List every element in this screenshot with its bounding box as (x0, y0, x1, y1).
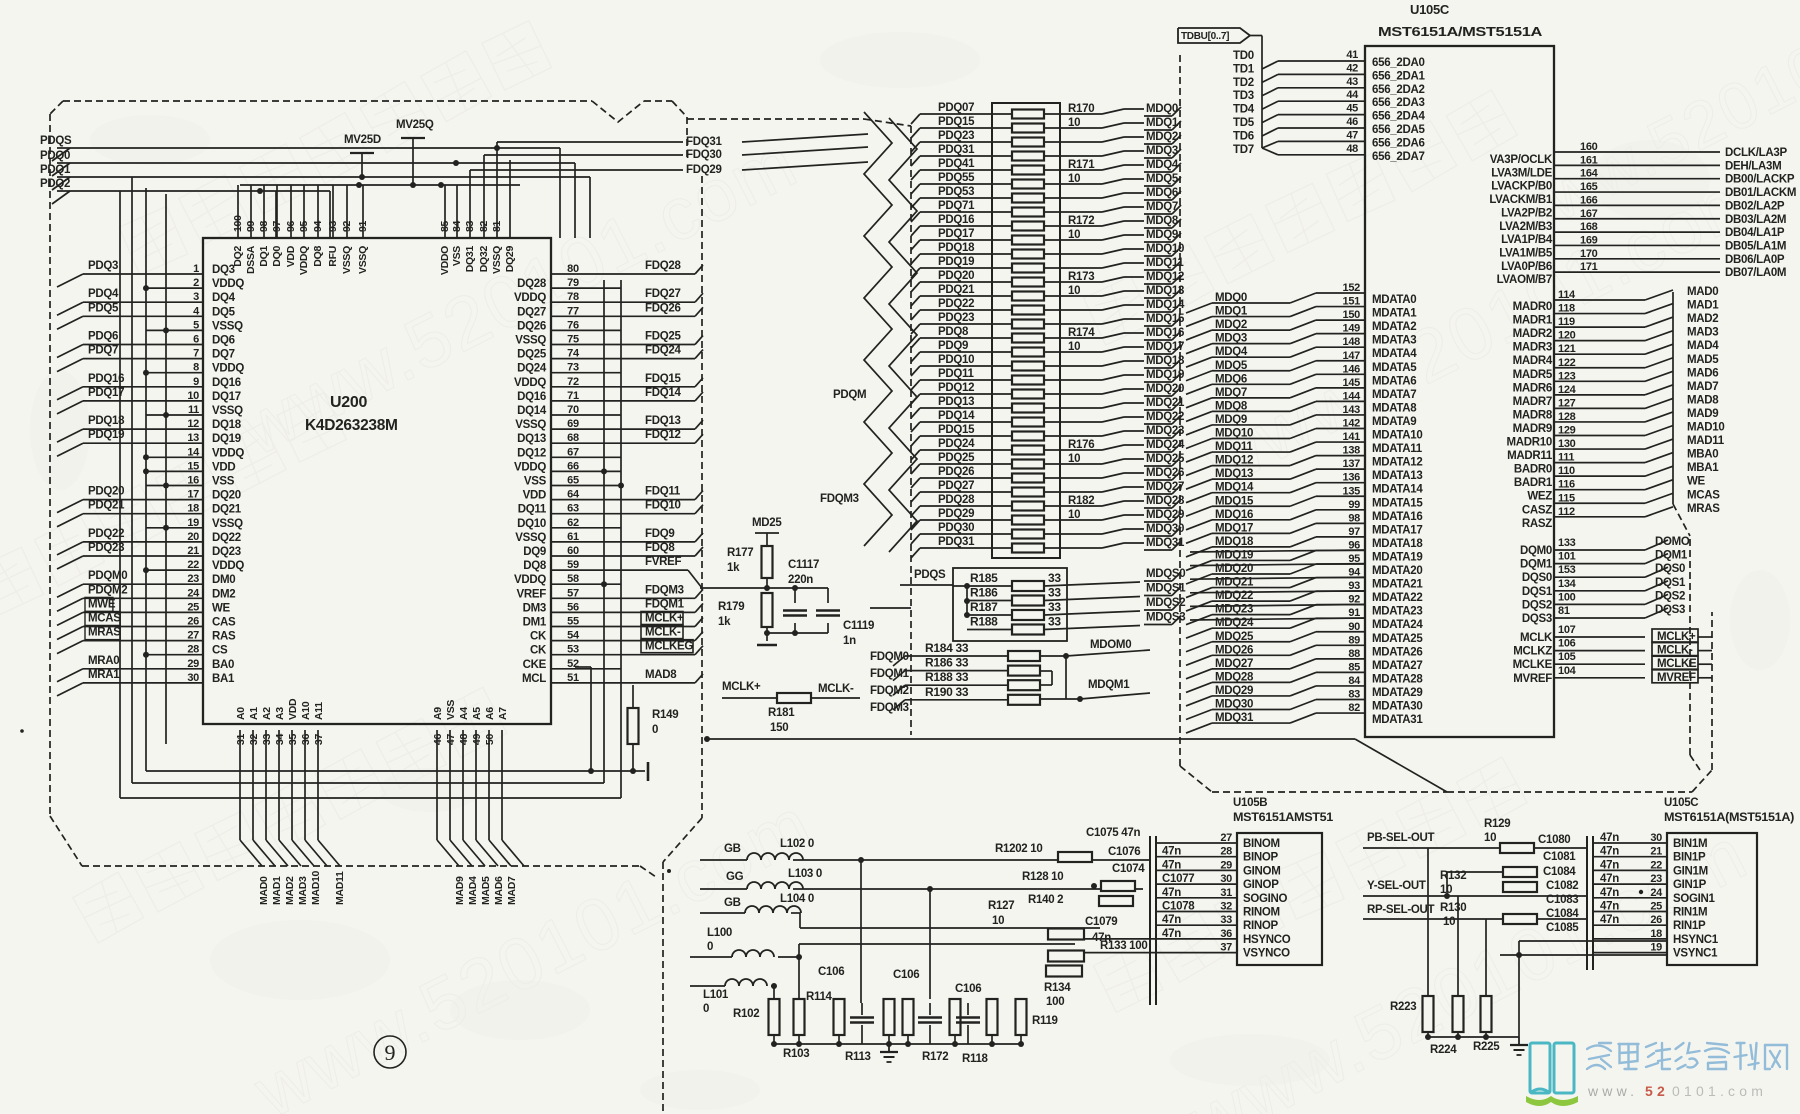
svg-text:MDQ14: MDQ14 (1215, 482, 1254, 494)
svg-text:166: 166 (1580, 194, 1598, 206)
svg-text:MCAS: MCAS (1687, 489, 1720, 501)
svg-text:BA0: BA0 (212, 659, 234, 671)
svg-text:137: 137 (1343, 458, 1361, 470)
svg-text:PDQ16: PDQ16 (88, 373, 124, 385)
svg-text:BADR1: BADR1 (1514, 477, 1553, 489)
svg-text:84: 84 (1348, 675, 1361, 687)
svg-text:FDQ27: FDQ27 (645, 288, 681, 300)
svg-text:MDATA0: MDATA0 (1372, 294, 1416, 306)
svg-text:100: 100 (232, 215, 244, 232)
svg-text:MDQ12: MDQ12 (1215, 455, 1253, 467)
svg-text:MAD11: MAD11 (334, 871, 346, 905)
svg-text:83: 83 (464, 220, 476, 232)
svg-text:PDQ55: PDQ55 (938, 172, 975, 184)
svg-text:VSS: VSS (212, 476, 235, 488)
svg-text:MAD5: MAD5 (1687, 354, 1719, 366)
svg-text:VSYNC1: VSYNC1 (1673, 948, 1718, 960)
svg-text:DQ11: DQ11 (518, 504, 547, 516)
svg-text:A7: A7 (497, 707, 509, 720)
svg-text:MAD7: MAD7 (506, 876, 518, 905)
svg-text:PDQM2: PDQM2 (88, 584, 127, 596)
svg-text:BINOM: BINOM (1243, 838, 1280, 850)
svg-text:VSS: VSS (445, 700, 457, 720)
svg-text:WE: WE (212, 602, 231, 614)
svg-text:SOGIN1: SOGIN1 (1673, 893, 1716, 905)
svg-text:85: 85 (1348, 661, 1360, 673)
svg-text:R140 2: R140 2 (1028, 894, 1063, 906)
svg-text:MAD1: MAD1 (271, 876, 283, 905)
svg-text:C1081: C1081 (1543, 851, 1576, 863)
svg-text:R170: R170 (1068, 103, 1094, 115)
svg-text:PDQ26: PDQ26 (938, 466, 974, 478)
svg-text:656_2DA3: 656_2DA3 (1372, 97, 1425, 109)
svg-text:RINOM: RINOM (1243, 907, 1280, 919)
svg-text:L100: L100 (707, 927, 732, 939)
svg-text:10: 10 (1484, 832, 1496, 844)
svg-text:MDATA7: MDATA7 (1372, 389, 1416, 401)
svg-text:MAD2: MAD2 (284, 876, 296, 905)
svg-text:MAD8: MAD8 (1687, 394, 1719, 406)
svg-text:L101: L101 (703, 989, 729, 1001)
svg-text:MDQ27: MDQ27 (1215, 658, 1253, 670)
svg-text:MDQ0: MDQ0 (1215, 292, 1247, 304)
svg-text:MDQ16: MDQ16 (1215, 509, 1253, 521)
svg-text:99: 99 (245, 220, 257, 232)
svg-text:GIN1P: GIN1P (1673, 879, 1707, 891)
svg-text:42: 42 (1346, 62, 1358, 74)
svg-text:LVA2M/B3: LVA2M/B3 (1499, 221, 1552, 233)
svg-text:PDQ19: PDQ19 (88, 429, 124, 441)
svg-text:R176: R176 (1068, 439, 1094, 451)
svg-text:104: 104 (1558, 665, 1577, 677)
svg-text:MDATA9: MDATA9 (1372, 416, 1416, 428)
svg-text:47n: 47n (1600, 846, 1619, 858)
svg-text:141: 141 (1343, 431, 1361, 443)
svg-text:33: 33 (261, 734, 273, 746)
svg-text:FDQ24: FDQ24 (645, 345, 681, 357)
svg-text:DB07/LA0M: DB07/LA0M (1725, 267, 1786, 279)
svg-text:DQ13: DQ13 (517, 433, 546, 445)
svg-text:MADR4: MADR4 (1513, 355, 1553, 367)
svg-text:CKE: CKE (523, 659, 547, 671)
svg-text:R188 33: R188 33 (925, 670, 969, 684)
svg-text:CK: CK (530, 645, 547, 657)
svg-text:FDQM3: FDQM3 (820, 493, 859, 505)
svg-text:A5: A5 (471, 707, 483, 720)
svg-text:44: 44 (1346, 89, 1359, 101)
svg-text:DQ26: DQ26 (517, 320, 546, 332)
svg-text:MDQ7: MDQ7 (1146, 201, 1178, 213)
svg-text:LVA0P/B6: LVA0P/B6 (1501, 261, 1552, 273)
svg-text:MADR2: MADR2 (1513, 328, 1552, 340)
svg-text:MADR11: MADR11 (1507, 450, 1553, 462)
svg-text:C1077: C1077 (1162, 873, 1194, 885)
svg-text:43: 43 (1346, 76, 1358, 88)
svg-text:MDQ3: MDQ3 (1215, 333, 1247, 345)
svg-text:160: 160 (1580, 141, 1598, 153)
svg-text:MDQ2: MDQ2 (1215, 319, 1247, 331)
svg-text:R172: R172 (1068, 215, 1094, 227)
svg-text:FDQ8: FDQ8 (645, 542, 675, 554)
svg-text:115: 115 (1558, 492, 1575, 504)
svg-text:MDOM0: MDOM0 (1090, 639, 1131, 651)
svg-text:R186 33: R186 33 (925, 656, 969, 670)
svg-text:PDQ12: PDQ12 (938, 382, 974, 394)
svg-text:MAD5: MAD5 (480, 876, 492, 905)
svg-text:DQ27: DQ27 (517, 306, 546, 318)
svg-text:C1076: C1076 (1108, 846, 1140, 858)
svg-text:MST6151A/MST5151A: MST6151A/MST5151A (1378, 25, 1542, 39)
svg-text:MDATA29: MDATA29 (1372, 687, 1423, 699)
svg-text:PDQ14: PDQ14 (938, 410, 975, 422)
svg-text:47n: 47n (1600, 901, 1619, 913)
svg-text:128: 128 (1558, 411, 1576, 423)
svg-text:HSYNCO: HSYNCO (1243, 934, 1291, 946)
svg-text:MDATA26: MDATA26 (1372, 646, 1423, 658)
svg-text:A0: A0 (235, 707, 247, 720)
svg-text:MD25: MD25 (752, 517, 782, 529)
svg-text:VSYNCO: VSYNCO (1243, 948, 1290, 960)
svg-text:100: 100 (1558, 591, 1576, 603)
svg-text:MRA0: MRA0 (88, 655, 119, 667)
svg-text:47n: 47n (1600, 887, 1619, 899)
svg-text:MAD8: MAD8 (645, 669, 677, 681)
svg-text:171: 171 (1580, 261, 1598, 273)
svg-text:R128 10: R128 10 (1022, 871, 1063, 883)
svg-text:VSSQ: VSSQ (515, 419, 546, 431)
svg-text:R134: R134 (1044, 982, 1071, 994)
svg-text:PDQ6: PDQ6 (88, 331, 118, 343)
svg-text:LVA1P/B4: LVA1P/B4 (1501, 234, 1553, 246)
svg-text:MDQ15: MDQ15 (1215, 495, 1254, 507)
svg-text:PDQ15: PDQ15 (938, 116, 975, 128)
svg-text:VREF: VREF (517, 588, 547, 600)
svg-text:PDQ16: PDQ16 (938, 214, 974, 226)
svg-text:MDQ25: MDQ25 (1215, 631, 1254, 643)
svg-text:PDQ20: PDQ20 (938, 270, 974, 282)
svg-text:RASZ: RASZ (1522, 518, 1552, 530)
svg-text:DQ7: DQ7 (212, 349, 235, 361)
svg-text:112: 112 (1558, 506, 1575, 518)
svg-text:33: 33 (1048, 586, 1061, 600)
svg-text:149: 149 (1343, 323, 1361, 335)
svg-text:MCLK-: MCLK- (818, 683, 854, 695)
svg-text:CAS: CAS (212, 617, 236, 629)
svg-text:PDQ0: PDQ0 (40, 150, 70, 162)
svg-text:VDDQ: VDDQ (212, 363, 244, 375)
svg-text:MCLKEG: MCLKEG (645, 641, 693, 653)
svg-text:PDQ30: PDQ30 (938, 522, 974, 534)
svg-text:136: 136 (1343, 472, 1361, 484)
svg-text:C106: C106 (818, 966, 844, 978)
svg-text:83: 83 (1348, 689, 1360, 701)
svg-text:MAD6: MAD6 (1687, 367, 1718, 379)
svg-text:82: 82 (478, 220, 490, 232)
svg-text:DQ8: DQ8 (523, 560, 547, 572)
svg-text:C1079: C1079 (1085, 916, 1117, 928)
svg-text:49: 49 (471, 734, 483, 746)
svg-text:DQ17: DQ17 (212, 391, 241, 403)
svg-text:LVACKM/B1: LVACKM/B1 (1489, 194, 1553, 206)
svg-text:PDQ41: PDQ41 (938, 158, 975, 170)
svg-text:MDATA11: MDATA11 (1372, 443, 1423, 455)
svg-text:VSSQ: VSSQ (341, 246, 353, 274)
svg-text:C1083: C1083 (1546, 894, 1578, 906)
svg-text:VA3P/OCLK: VA3P/OCLK (1490, 154, 1553, 166)
svg-text:TD3: TD3 (1233, 90, 1254, 102)
svg-text:MDATA4: MDATA4 (1372, 348, 1417, 360)
svg-text:C1080: C1080 (1538, 834, 1570, 846)
svg-text:FDQM1: FDQM1 (870, 668, 910, 680)
svg-text:MST6151A(MST5151A): MST6151A(MST5151A) (1664, 812, 1795, 824)
svg-text:MCLK+: MCLK+ (645, 613, 684, 625)
svg-text:97: 97 (1348, 526, 1360, 538)
svg-text:C1075 47n: C1075 47n (1086, 827, 1140, 839)
svg-text:R188: R188 (970, 615, 998, 629)
svg-text:VSSQ: VSSQ (212, 518, 243, 530)
svg-text:MADR10: MADR10 (1507, 437, 1553, 449)
svg-text:129: 129 (1558, 425, 1576, 437)
svg-text:90: 90 (1348, 621, 1360, 633)
svg-text:R223: R223 (1390, 1001, 1416, 1013)
svg-text:SOGINO: SOGINO (1243, 893, 1288, 905)
svg-text:U200: U200 (330, 394, 367, 411)
svg-text:L102 0: L102 0 (780, 838, 814, 850)
svg-text:138: 138 (1343, 445, 1361, 457)
svg-text:MDQ5: MDQ5 (1215, 360, 1248, 372)
svg-text:BINOP: BINOP (1243, 852, 1279, 864)
svg-text:VDD: VDD (212, 461, 235, 473)
svg-text:FDQM3: FDQM3 (870, 702, 909, 714)
svg-text:96: 96 (285, 220, 297, 232)
svg-text:MDATA18: MDATA18 (1372, 538, 1423, 550)
svg-text:TD0: TD0 (1233, 50, 1254, 62)
svg-text:VDDQ: VDDQ (212, 447, 244, 459)
svg-text:165: 165 (1580, 181, 1598, 193)
svg-text:MDQ8: MDQ8 (1215, 400, 1248, 412)
svg-text:VDDQ: VDDQ (212, 560, 244, 572)
svg-text:MADR5: MADR5 (1513, 369, 1553, 381)
svg-text:BIN1P: BIN1P (1673, 852, 1706, 864)
svg-text:122: 122 (1558, 357, 1576, 369)
svg-text:81: 81 (491, 220, 503, 232)
svg-text:82: 82 (1348, 702, 1360, 714)
svg-text:DQ22: DQ22 (212, 532, 241, 544)
svg-text:46: 46 (432, 734, 444, 746)
svg-text:MAD1: MAD1 (1687, 300, 1719, 312)
svg-text:R102: R102 (733, 1008, 759, 1020)
svg-text:VDD: VDD (287, 698, 299, 720)
svg-text:HSYNC1: HSYNC1 (1673, 934, 1719, 946)
svg-text:89: 89 (1348, 634, 1360, 646)
svg-text:R190 33: R190 33 (925, 685, 969, 699)
svg-text:MAD10: MAD10 (310, 870, 322, 905)
svg-text:GINOM: GINOM (1243, 865, 1280, 877)
svg-text:WE: WE (1687, 476, 1706, 488)
svg-text:U105C: U105C (1664, 797, 1698, 809)
svg-text:MCL: MCL (522, 673, 546, 685)
svg-text:DQS3: DQS3 (1522, 613, 1552, 625)
svg-text:R182: R182 (1068, 495, 1094, 507)
svg-text:MCLKZ: MCLKZ (1513, 646, 1552, 658)
svg-text:0101.com: 0101.com (1672, 1083, 1767, 1099)
svg-text:FDQ12: FDQ12 (645, 429, 681, 441)
svg-text:VDDQ: VDDQ (514, 461, 546, 473)
svg-text:MDQ7: MDQ7 (1215, 387, 1247, 399)
svg-text:RIN1P: RIN1P (1673, 920, 1706, 932)
svg-text:134: 134 (1558, 578, 1577, 590)
svg-text:MDATA20: MDATA20 (1372, 565, 1423, 577)
svg-text:MDQ6: MDQ6 (1146, 187, 1178, 199)
svg-text:VDDQ: VDDQ (514, 292, 546, 304)
svg-text:47n: 47n (1600, 873, 1619, 885)
svg-text:MDQ4: MDQ4 (1215, 346, 1248, 358)
svg-text:C1082: C1082 (1546, 880, 1578, 892)
svg-text:MADR8: MADR8 (1513, 409, 1553, 421)
svg-text:A4: A4 (458, 707, 470, 720)
svg-text:106: 106 (1558, 638, 1576, 650)
svg-text:MDATA10: MDATA10 (1372, 430, 1423, 442)
svg-text:124: 124 (1558, 384, 1577, 396)
svg-text:R114: R114 (806, 991, 833, 1003)
svg-text:656_2DA6: 656_2DA6 (1372, 137, 1425, 149)
svg-text:MDQ9: MDQ9 (1146, 229, 1178, 241)
svg-text:10: 10 (992, 915, 1004, 927)
svg-text:167: 167 (1580, 208, 1598, 220)
svg-text:MAD4: MAD4 (467, 876, 479, 905)
svg-text:DQ2: DQ2 (232, 246, 244, 267)
svg-text:MDATA3: MDATA3 (1372, 335, 1416, 347)
svg-text:PDQ31: PDQ31 (938, 144, 975, 156)
svg-text:100: 100 (1046, 996, 1064, 1008)
svg-text:VDDO: VDDO (439, 246, 451, 275)
svg-text:47n: 47n (1162, 859, 1181, 871)
svg-text:DB06/LA0P: DB06/LA0P (1725, 254, 1785, 266)
svg-text:DQ1: DQ1 (258, 246, 270, 267)
svg-text:FDQM0: FDQM0 (870, 651, 909, 663)
svg-text:MDQ13: MDQ13 (1215, 468, 1253, 480)
svg-text:MST6151AMST51: MST6151AMST51 (1233, 812, 1334, 824)
svg-text:MDQ1: MDQ1 (1215, 306, 1248, 318)
svg-text:119: 119 (1558, 316, 1575, 328)
svg-text:DEH/LA3M: DEH/LA3M (1725, 160, 1781, 172)
svg-text:VSSQ: VSSQ (515, 532, 546, 544)
svg-text:33: 33 (1048, 600, 1061, 614)
svg-text:TD2: TD2 (1233, 77, 1254, 89)
svg-text:47n: 47n (1600, 914, 1619, 926)
svg-text:MADR3: MADR3 (1513, 342, 1552, 354)
svg-text:FDQ9: FDQ9 (645, 528, 674, 540)
svg-text:33: 33 (1048, 615, 1061, 629)
svg-text:168: 168 (1580, 221, 1598, 233)
svg-text:144: 144 (1343, 390, 1362, 402)
svg-text:MDQ9: MDQ9 (1215, 414, 1247, 426)
svg-text:127: 127 (1558, 397, 1576, 409)
svg-text:VDD: VDD (523, 490, 546, 502)
svg-text:R133 100: R133 100 (1100, 940, 1147, 952)
svg-text:RIN1M: RIN1M (1673, 907, 1707, 919)
svg-text:MDATA16: MDATA16 (1372, 511, 1423, 523)
svg-text:PDQ17: PDQ17 (88, 387, 124, 399)
svg-text:www.: www. (1587, 1083, 1638, 1099)
svg-text:FDQ30: FDQ30 (686, 149, 722, 161)
svg-text:DQ5: DQ5 (212, 306, 236, 318)
svg-text:142: 142 (1343, 418, 1361, 430)
svg-text:TDBU[0..7]: TDBU[0..7] (1181, 31, 1229, 42)
svg-text:A9: A9 (432, 707, 444, 720)
svg-text:DQ0: DQ0 (271, 246, 283, 267)
svg-text:L103 0: L103 0 (788, 868, 822, 880)
svg-text:PDQ28: PDQ28 (938, 494, 975, 506)
svg-text:MBA1: MBA1 (1687, 462, 1719, 474)
svg-text:GINOP: GINOP (1243, 879, 1279, 891)
svg-text:R119: R119 (1032, 1015, 1058, 1027)
svg-text:169: 169 (1580, 234, 1598, 246)
svg-text:FDQ31: FDQ31 (686, 136, 722, 148)
svg-text:Y-SEL-OUT: Y-SEL-OUT (1367, 880, 1426, 892)
svg-text:DQ32: DQ32 (478, 246, 490, 273)
svg-text:MADR7: MADR7 (1513, 396, 1552, 408)
svg-text:VSS: VSS (451, 246, 463, 266)
svg-text:MDATA12: MDATA12 (1372, 457, 1423, 469)
svg-text:R113: R113 (845, 1051, 871, 1063)
svg-text:MDQ31: MDQ31 (1215, 712, 1254, 724)
svg-text:45: 45 (1346, 103, 1358, 115)
svg-text:WEZ: WEZ (1527, 491, 1552, 503)
svg-text:C1117: C1117 (788, 559, 819, 571)
svg-text:R149: R149 (652, 709, 678, 721)
svg-text:R129: R129 (1484, 818, 1510, 830)
svg-text:98: 98 (1348, 512, 1360, 524)
svg-text:BA1: BA1 (212, 673, 235, 685)
svg-text:DQM1: DQM1 (1520, 559, 1553, 571)
svg-text:MDQS1: MDQS1 (1146, 583, 1186, 595)
svg-text:A1: A1 (248, 707, 260, 720)
svg-text:110: 110 (1558, 465, 1575, 477)
svg-text:150: 150 (770, 722, 788, 734)
svg-text:R177: R177 (727, 547, 753, 559)
svg-text:MDATA23: MDATA23 (1372, 606, 1423, 618)
svg-text:0: 0 (703, 1003, 709, 1015)
svg-text:DQ18: DQ18 (212, 419, 242, 431)
svg-text:656_2DA0: 656_2DA0 (1372, 57, 1425, 69)
svg-text:PDQ31: PDQ31 (938, 536, 975, 548)
svg-text:PDQ23: PDQ23 (938, 130, 974, 142)
svg-text:MDQ29: MDQ29 (1215, 685, 1253, 697)
svg-text:PDQ10: PDQ10 (938, 354, 974, 366)
svg-text:37: 37 (313, 734, 325, 746)
svg-text:A10: A10 (300, 701, 312, 720)
svg-text:DQ29: DQ29 (504, 246, 516, 273)
svg-text:101: 101 (1558, 551, 1576, 563)
svg-text:MCLKE: MCLKE (1513, 659, 1553, 671)
svg-text:656_2DA5: 656_2DA5 (1372, 124, 1425, 136)
svg-text:R225: R225 (1473, 1041, 1500, 1053)
svg-text:DQS1: DQS1 (1522, 586, 1553, 598)
svg-text:47n: 47n (1162, 914, 1181, 926)
svg-text:145: 145 (1343, 377, 1361, 389)
svg-text:PDQ22: PDQ22 (938, 298, 974, 310)
svg-text:DQS1: DQS1 (1655, 577, 1686, 589)
svg-text:R127: R127 (988, 900, 1014, 912)
svg-text:MADR6: MADR6 (1513, 382, 1552, 394)
svg-text:VDDQ: VDDQ (212, 278, 244, 290)
svg-text:95: 95 (298, 220, 310, 232)
svg-text:DQM1: DQM1 (1655, 550, 1688, 562)
svg-text:MAD0: MAD0 (1687, 286, 1718, 298)
svg-text:R1202 10: R1202 10 (995, 843, 1042, 855)
svg-text:MAD10: MAD10 (1687, 422, 1724, 434)
